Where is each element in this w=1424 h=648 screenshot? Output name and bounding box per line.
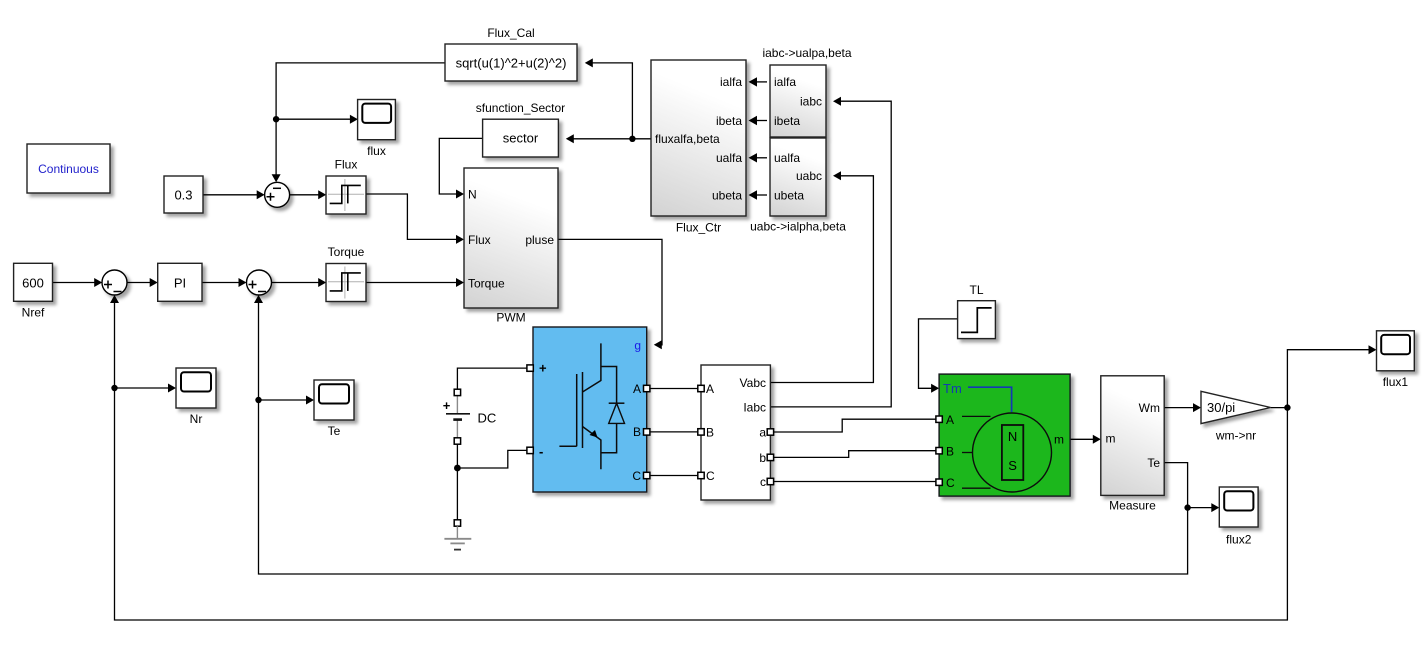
svg-text:Vabc: Vabc (740, 376, 766, 390)
svg-text:ubeta: ubeta (774, 188, 804, 202)
svg-text:ualfa: ualfa (774, 151, 800, 165)
relay Torque (326, 245, 366, 302)
wire: Flux_Cal output to sum1 and flux scope (272, 63, 445, 182)
iabc->ualpa,beta subsystem block (762, 46, 851, 137)
wire: bridge C to measurement C (649, 475, 698, 477)
svg-text:PWM: PWM (496, 311, 525, 325)
Measure subsystem block (1101, 376, 1164, 513)
svg-text:N: N (468, 188, 477, 202)
wire: measurement c to machine C (773, 481, 936, 483)
svg-text:Nr: Nr (190, 412, 203, 426)
svg-text:-: - (539, 444, 543, 459)
wire: PWM pluse output to bridge g input (558, 239, 662, 349)
machine Tm wire (blue) (968, 387, 1012, 412)
svg-text:S: S (1008, 458, 1017, 473)
svg-text:sector: sector (503, 131, 539, 146)
scope Te (314, 380, 354, 438)
scope flux (358, 100, 396, 159)
svg-text:ubeta: ubeta (712, 188, 742, 202)
svg-text:Flux_Cal: Flux_Cal (487, 26, 534, 40)
svg-text:Flux: Flux (335, 158, 358, 172)
wire: Measure Te output to flux2 and feedback (1164, 463, 1219, 512)
wire: sum2 to PI (127, 278, 158, 287)
wire: uabc block ualfa to Flux_Ctr ualfa (749, 153, 768, 162)
svg-text:flux1: flux1 (1383, 375, 1409, 389)
svg-text:ialfa: ialfa (720, 75, 742, 89)
svg-text:DC: DC (478, 411, 497, 426)
svg-text:C: C (946, 476, 955, 490)
sfunction_Sector block (476, 101, 565, 157)
svg-text:a: a (759, 425, 766, 439)
universal bridge (inverter) block (527, 327, 650, 492)
wire: gain output to node, flux1 (1271, 345, 1377, 411)
machine port stubs (962, 415, 991, 417)
svg-text:PI: PI (174, 276, 186, 291)
DC voltage source (443, 389, 497, 444)
svg-text:B: B (633, 425, 641, 439)
svg-text:b: b (759, 451, 766, 465)
svg-text:+: + (539, 361, 547, 376)
step source TL (958, 283, 996, 339)
asynchronous machine block (936, 374, 1070, 496)
svg-text:Torque: Torque (328, 245, 365, 259)
svg-text:fluxalfa,beta: fluxalfa,beta (655, 132, 720, 146)
wire: uabc block ubeta to Flux_Ctr ubeta (749, 190, 768, 199)
svg-text:wm->nr: wm->nr (1215, 429, 1256, 443)
wire: Measure Wm output to gain (1164, 403, 1201, 412)
svg-text:iabc->ualpa,beta: iabc->ualpa,beta (762, 46, 851, 60)
wire: machine m output to Measure m input (1070, 435, 1101, 444)
svg-text:ibeta: ibeta (774, 114, 800, 128)
wire: sum1 to Flux relay (290, 190, 327, 199)
IGBT icon inside bridge (559, 343, 624, 469)
gain 30/pi (1201, 391, 1271, 442)
svg-text:m: m (1106, 431, 1116, 445)
sum junction S2 (102, 270, 127, 295)
ground symbol (444, 520, 471, 550)
svg-text:ialfa: ialfa (774, 75, 796, 89)
wire: TL step to machine Tm input (919, 319, 958, 393)
scope flux1 (1377, 331, 1415, 389)
svg-text:sqrt(u(1)^2+u(2)^2): sqrt(u(1)^2+u(2)^2) (456, 55, 567, 70)
wire: bridge B to measurement B (649, 431, 698, 433)
relay Flux (326, 158, 366, 215)
svg-text:600: 600 (22, 276, 44, 291)
svg-text:g: g (634, 338, 641, 352)
wire: 0.3 to sum1 (203, 190, 265, 199)
wire: measurement b to machine B (773, 451, 936, 458)
wire: 600 to sum2 (53, 278, 103, 287)
wire: PI to sum3 (202, 278, 247, 287)
constant 0.3 (164, 176, 203, 213)
svg-text:Iabc: Iabc (743, 400, 766, 414)
svg-text:+: + (443, 398, 451, 413)
svg-text:B: B (946, 444, 954, 458)
svg-text:flux2: flux2 (1226, 533, 1252, 547)
svg-text:C: C (632, 469, 641, 483)
svg-text:Flux: Flux (468, 233, 491, 247)
wire: Torque relay to PWM Torque input (366, 278, 464, 287)
svg-text:uabc->ialpha,beta: uabc->ialpha,beta (750, 220, 846, 234)
svg-text:Wm: Wm (1139, 401, 1160, 415)
svg-text:Nref: Nref (22, 306, 45, 320)
svg-text:Te: Te (1147, 456, 1160, 470)
svg-text:ualfa: ualfa (716, 151, 742, 165)
wire: Flux_Ctr fluxalfa,beta output to Flux_Cal and sector inputs (566, 58, 651, 143)
PI controller block (158, 263, 202, 301)
svg-text:Measure: Measure (1109, 499, 1156, 513)
svg-text:A: A (946, 413, 954, 427)
wire: Vabc to uabc input (770, 171, 873, 382)
svg-text:Continuous: Continuous (38, 162, 99, 176)
sum junction S1 (265, 182, 290, 207)
wire: torque feedback from Te node to sum3 and Te scope (254, 295, 1188, 574)
Continuous annotation block (27, 144, 110, 193)
svg-text:m: m (1054, 433, 1064, 447)
uabc->ialpha,beta subsystem block (750, 138, 846, 234)
svg-text:C: C (706, 469, 715, 483)
wire: measurement a to machine A (773, 419, 936, 432)
svg-text:Te: Te (328, 424, 341, 438)
svg-text:30/pi: 30/pi (1207, 400, 1235, 415)
svg-text:ibeta: ibeta (716, 114, 742, 128)
scope Nr (176, 368, 216, 426)
PWM subsystem block (464, 168, 558, 325)
constant 600 with label Nref (14, 263, 53, 319)
wire: Iabc to iabc input (770, 97, 891, 407)
machine magnet rectangle (1002, 425, 1023, 480)
scope flux2 (1219, 487, 1258, 547)
wire: bridge A to measurement A (649, 388, 698, 390)
wire: sector output to PWM N input (439, 138, 482, 198)
svg-text:0.3: 0.3 (174, 187, 192, 202)
svg-text:Tm: Tm (943, 381, 962, 396)
svg-text:B: B (706, 425, 714, 439)
svg-text:N: N (1008, 429, 1017, 444)
wire: DC source minus to bridge - via junction (454, 444, 528, 521)
svg-text:A: A (706, 382, 714, 396)
svg-text:iabc: iabc (800, 95, 822, 109)
Flux_Ctr subsystem block (651, 60, 746, 235)
svg-text:sfunction_Sector: sfunction_Sector (476, 101, 565, 115)
svg-text:Torque: Torque (468, 277, 505, 291)
three-phase V-I measurement block (698, 365, 774, 500)
sum junction S3 (247, 270, 272, 295)
svg-text:flux: flux (367, 144, 386, 158)
svg-text:TL: TL (969, 283, 983, 297)
wire: Flux relay to PWM Flux input (366, 194, 464, 244)
wire: iabc block ialfa to Flux_Ctr ialfa (749, 77, 768, 86)
machine rotor circle (973, 413, 1052, 492)
wire: sum3 to Torque relay (272, 278, 327, 287)
svg-text:c: c (760, 475, 766, 489)
wire: iabc block ibeta to Flux_Ctr ibeta (749, 116, 768, 125)
wire: speed feedback from gain node to sum2 and Nr scope (110, 295, 1287, 620)
svg-text:Flux_Ctr: Flux_Ctr (676, 221, 721, 235)
wire: DC source plus to bridge + (457, 368, 528, 389)
Flux_Cal block (445, 26, 577, 81)
svg-text:pluse: pluse (525, 233, 554, 247)
svg-text:uabc: uabc (796, 169, 822, 183)
svg-text:A: A (633, 382, 641, 396)
